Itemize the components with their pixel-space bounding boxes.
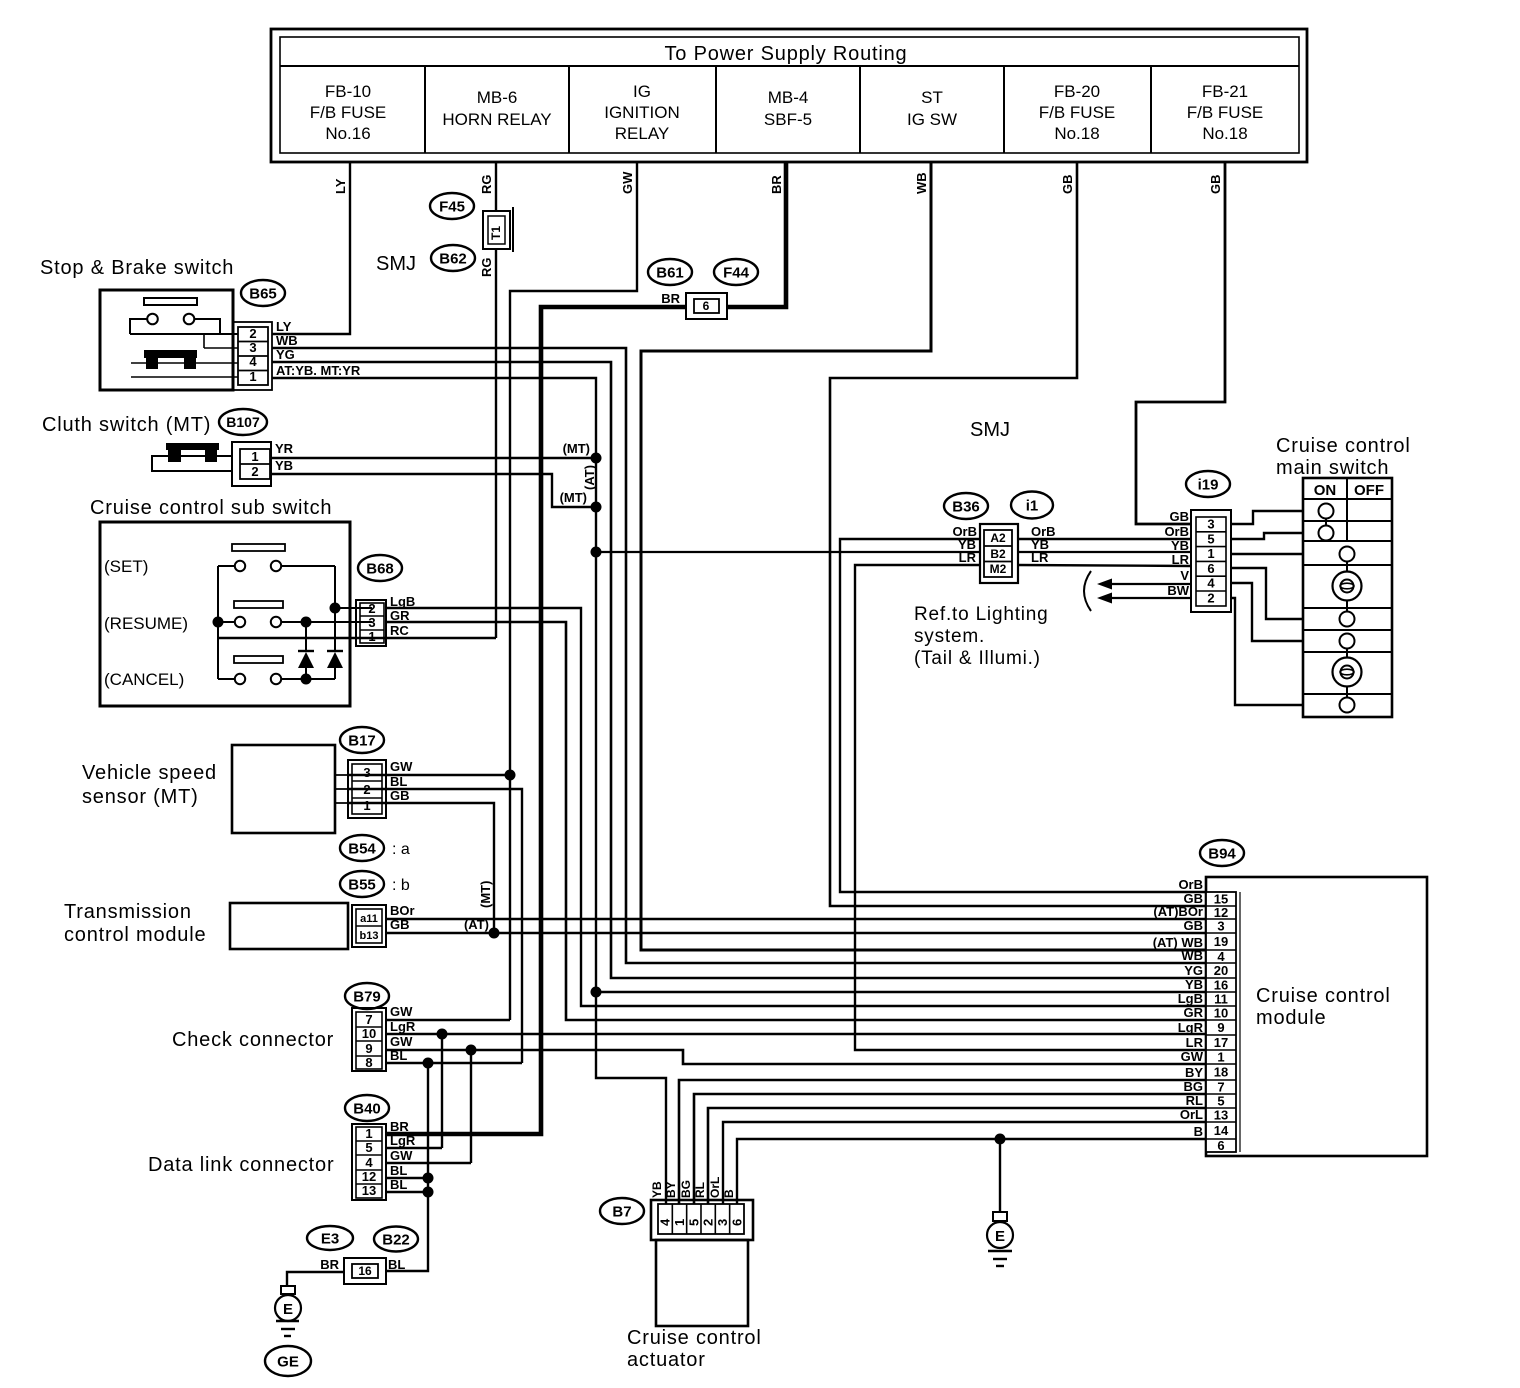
svg-text:B61: B61	[656, 264, 684, 281]
svg-text:1: 1	[251, 449, 258, 464]
svg-text:1: 1	[1207, 546, 1214, 561]
svg-text:B22: B22	[382, 1231, 410, 1248]
svg-text:B40: B40	[353, 1100, 381, 1117]
svg-text:(AT): (AT)	[582, 465, 597, 490]
svg-text:T1: T1	[489, 226, 503, 240]
svg-text:Check connector: Check connector	[172, 1029, 334, 1051]
svg-text:(MT): (MT)	[478, 881, 493, 908]
svg-text:6: 6	[703, 299, 710, 313]
svg-text:2: 2	[1207, 591, 1214, 606]
svg-text:LgB: LgB	[390, 594, 415, 609]
svg-text:5: 5	[686, 1219, 701, 1226]
svg-text:(RESUME): (RESUME)	[104, 614, 188, 633]
svg-text:Cruise control: Cruise control	[1276, 435, 1411, 457]
svg-text:i1: i1	[1026, 497, 1039, 514]
svg-text:6: 6	[729, 1219, 744, 1226]
svg-text:SMJ: SMJ	[376, 253, 416, 275]
svg-text:OrB: OrB	[1164, 524, 1189, 539]
svg-text:: b: : b	[392, 877, 410, 894]
svg-text:F/B FUSE: F/B FUSE	[310, 103, 387, 122]
svg-text:ON: ON	[1314, 482, 1337, 499]
svg-text:BL: BL	[390, 774, 407, 789]
svg-text:RL: RL	[1186, 1093, 1203, 1108]
svg-text:6: 6	[1207, 561, 1214, 576]
svg-text:b13: b13	[360, 930, 379, 942]
svg-text:BL: BL	[390, 1177, 407, 1192]
svg-text:FB-21: FB-21	[1202, 82, 1248, 101]
svg-text:5: 5	[1217, 1094, 1224, 1109]
svg-text:GW: GW	[1181, 1049, 1204, 1064]
svg-text:GW: GW	[390, 1004, 413, 1019]
svg-text:8: 8	[365, 1055, 372, 1070]
svg-text:B94: B94	[1208, 845, 1236, 862]
svg-text:BW: BW	[1167, 583, 1189, 598]
svg-text:GR: GR	[390, 608, 410, 623]
svg-text:Transmission: Transmission	[64, 901, 192, 923]
svg-text:RL: RL	[693, 1182, 707, 1198]
svg-text:BL: BL	[390, 1048, 407, 1063]
svg-text:GW: GW	[390, 1148, 413, 1163]
svg-text:(SET): (SET)	[104, 557, 148, 576]
svg-text:18: 18	[1214, 1065, 1228, 1080]
svg-text:B17: B17	[348, 732, 376, 749]
svg-text:OrB: OrB	[1178, 877, 1203, 892]
svg-text:2: 2	[251, 464, 258, 479]
svg-text:FB-10: FB-10	[325, 82, 371, 101]
svg-text:BR: BR	[769, 175, 784, 194]
svg-text:1: 1	[672, 1219, 687, 1226]
svg-text:ST: ST	[921, 88, 943, 107]
svg-text:BY: BY	[664, 1181, 678, 1198]
svg-text:V: V	[1180, 568, 1189, 583]
svg-text:LR: LR	[1186, 1035, 1204, 1050]
svg-text:WB: WB	[1181, 948, 1203, 963]
svg-text:YB: YB	[650, 1181, 664, 1198]
svg-text:GB: GB	[1060, 175, 1075, 195]
svg-text:3: 3	[363, 765, 370, 780]
svg-text:actuator: actuator	[627, 1349, 706, 1371]
svg-text:9: 9	[1217, 1020, 1224, 1035]
svg-text:RG: RG	[479, 258, 494, 278]
svg-text:B: B	[722, 1189, 736, 1198]
svg-text:17: 17	[1214, 1035, 1228, 1050]
svg-text:Cruise control: Cruise control	[627, 1327, 762, 1349]
svg-text:GW: GW	[390, 1034, 413, 1049]
svg-text:F45: F45	[439, 198, 465, 215]
svg-text:12: 12	[362, 1169, 376, 1184]
svg-text:13: 13	[362, 1183, 376, 1198]
svg-text:B2: B2	[990, 547, 1006, 561]
svg-text:F/B FUSE: F/B FUSE	[1039, 103, 1116, 122]
svg-text:Cluth switch (MT): Cluth switch (MT)	[42, 414, 211, 436]
svg-text:IG SW: IG SW	[907, 110, 957, 129]
svg-text:GB: GB	[1184, 918, 1204, 933]
svg-text:LgB: LgB	[1178, 991, 1203, 1006]
svg-text:IG: IG	[633, 82, 651, 101]
svg-text:SBF-5: SBF-5	[764, 110, 812, 129]
svg-text:4: 4	[1207, 576, 1215, 591]
svg-text:B: B	[1194, 1124, 1203, 1139]
svg-text:B65: B65	[249, 285, 277, 302]
svg-text:1: 1	[1217, 1050, 1224, 1065]
svg-text:FB-20: FB-20	[1054, 82, 1100, 101]
svg-text:7: 7	[365, 1012, 372, 1027]
svg-text:2: 2	[368, 601, 375, 616]
svg-text:MB-4: MB-4	[768, 88, 809, 107]
svg-text:E3: E3	[321, 1230, 339, 1247]
svg-text:BR: BR	[661, 291, 680, 306]
svg-text:14: 14	[1214, 1123, 1229, 1138]
svg-text:(AT)BOr: (AT)BOr	[1153, 904, 1203, 919]
svg-text:system.: system.	[914, 626, 985, 647]
svg-text:10: 10	[1214, 1006, 1228, 1021]
svg-text:F/B FUSE: F/B FUSE	[1187, 103, 1264, 122]
svg-text:BG: BG	[1184, 1079, 1204, 1094]
svg-text:1: 1	[363, 798, 370, 813]
svg-text:B68: B68	[366, 560, 394, 577]
svg-text:a11: a11	[360, 913, 378, 925]
svg-text:LgR: LgR	[1178, 1020, 1204, 1035]
svg-text:B36: B36	[952, 498, 980, 515]
svg-text:Ref.to Lighting: Ref.to Lighting	[914, 604, 1049, 625]
svg-text:Stop & Brake switch: Stop & Brake switch	[40, 257, 234, 279]
svg-text:B79: B79	[353, 988, 381, 1005]
svg-text:5: 5	[365, 1140, 372, 1155]
svg-text:M2: M2	[990, 562, 1007, 576]
svg-text:16: 16	[1214, 978, 1228, 993]
svg-text:BR: BR	[320, 1257, 339, 1272]
svg-text:GE: GE	[277, 1353, 299, 1370]
svg-text:IGNITION: IGNITION	[604, 103, 680, 122]
svg-text:2: 2	[249, 326, 256, 341]
svg-text:WB: WB	[276, 333, 298, 348]
svg-text:GB: GB	[1208, 175, 1223, 195]
svg-text:(Tail & Illumi.): (Tail & Illumi.)	[914, 648, 1041, 669]
svg-text:3: 3	[1207, 517, 1214, 532]
svg-text:E: E	[995, 1228, 1005, 1245]
svg-text:BG: BG	[679, 1180, 693, 1198]
svg-text:(MT): (MT)	[560, 490, 587, 505]
svg-text:(MT): (MT)	[563, 441, 590, 456]
svg-text:(CANCEL): (CANCEL)	[104, 670, 184, 689]
svg-text:BL: BL	[390, 1163, 407, 1178]
svg-text:3: 3	[1217, 919, 1224, 934]
svg-text:B62: B62	[439, 250, 467, 267]
svg-text:GW: GW	[620, 171, 635, 194]
svg-text:: a: : a	[392, 841, 410, 858]
svg-text:4: 4	[1217, 949, 1225, 964]
svg-text:Cruise control sub switch: Cruise control sub switch	[90, 497, 332, 519]
svg-text:YG: YG	[276, 347, 295, 362]
svg-text:GW: GW	[390, 759, 413, 774]
svg-text:9: 9	[365, 1041, 372, 1056]
svg-text:i19: i19	[1198, 476, 1219, 493]
svg-text:GB: GB	[390, 788, 410, 803]
svg-text:2: 2	[701, 1219, 716, 1226]
svg-text:E: E	[283, 1301, 293, 1318]
svg-text:5: 5	[1207, 531, 1214, 546]
svg-text:7: 7	[1217, 1080, 1224, 1095]
svg-text:4: 4	[365, 1155, 373, 1170]
svg-text:GB: GB	[390, 917, 410, 932]
svg-text:OrL: OrL	[708, 1177, 722, 1198]
svg-text:3: 3	[249, 340, 256, 355]
svg-text:RG: RG	[479, 175, 494, 195]
svg-text:LY: LY	[276, 319, 292, 334]
svg-text:3: 3	[715, 1219, 730, 1226]
svg-text:Cruise control: Cruise control	[1256, 985, 1391, 1007]
svg-text:BY: BY	[1185, 1065, 1203, 1080]
svg-text:BL: BL	[388, 1257, 405, 1272]
svg-text:YR: YR	[275, 441, 294, 456]
svg-text:MB-6: MB-6	[477, 88, 518, 107]
svg-text:1: 1	[365, 1126, 372, 1141]
svg-text:YB: YB	[275, 458, 293, 473]
svg-text:control module: control module	[64, 924, 206, 946]
svg-text:B54: B54	[348, 840, 376, 857]
svg-text:main switch: main switch	[1276, 457, 1389, 479]
svg-text:module: module	[1256, 1007, 1326, 1029]
svg-text:LY: LY	[333, 178, 348, 194]
svg-text:AT:YB. MT:YR: AT:YB. MT:YR	[276, 363, 361, 378]
svg-text:Vehicle speed: Vehicle speed	[82, 762, 217, 784]
svg-text:OrL: OrL	[1180, 1107, 1203, 1122]
svg-text:RC: RC	[390, 623, 409, 638]
svg-text:F44: F44	[723, 264, 750, 281]
svg-text:4: 4	[249, 354, 257, 369]
svg-text:19: 19	[1214, 934, 1228, 949]
svg-text:3: 3	[368, 615, 375, 630]
svg-text:OFF: OFF	[1354, 482, 1384, 499]
svg-text:No.18: No.18	[1054, 124, 1099, 143]
svg-text:10: 10	[362, 1026, 376, 1041]
svg-text:LR: LR	[1031, 550, 1049, 565]
svg-text:20: 20	[1214, 963, 1228, 978]
svg-text:No.18: No.18	[1202, 124, 1247, 143]
svg-text:BR: BR	[390, 1119, 409, 1134]
svg-text:2: 2	[363, 782, 370, 797]
svg-text:No.16: No.16	[325, 124, 370, 143]
svg-text:11: 11	[1214, 992, 1228, 1007]
svg-text:YG: YG	[1184, 963, 1203, 978]
svg-text:B7: B7	[612, 1203, 631, 1220]
svg-text:To Power Supply Routing: To Power Supply Routing	[665, 43, 908, 65]
svg-text:1: 1	[368, 629, 375, 644]
svg-text:4: 4	[658, 1218, 673, 1226]
svg-text:B107: B107	[226, 414, 260, 430]
svg-text:WB: WB	[914, 172, 929, 194]
svg-text:YB: YB	[1185, 977, 1203, 992]
svg-text:LgR: LgR	[390, 1019, 416, 1034]
svg-text:GB: GB	[1170, 509, 1190, 524]
svg-text:Data link connector: Data link connector	[148, 1154, 334, 1176]
svg-text:13: 13	[1214, 1108, 1228, 1123]
svg-text:16: 16	[358, 1264, 372, 1278]
svg-text:1: 1	[249, 369, 256, 384]
svg-text:YB: YB	[1171, 538, 1189, 553]
svg-text:A2: A2	[990, 531, 1006, 545]
svg-text:SMJ: SMJ	[970, 419, 1010, 441]
svg-text:LgR: LgR	[390, 1133, 416, 1148]
svg-text:BOr: BOr	[390, 903, 415, 918]
svg-text:LR: LR	[959, 550, 977, 565]
svg-text:HORN RELAY: HORN RELAY	[442, 110, 551, 129]
svg-text:GR: GR	[1184, 1005, 1204, 1020]
svg-text:RELAY: RELAY	[615, 124, 670, 143]
svg-text:LR: LR	[1172, 552, 1190, 567]
svg-text:sensor (MT): sensor (MT)	[82, 786, 199, 808]
svg-text:6: 6	[1217, 1138, 1224, 1153]
svg-text:B55: B55	[348, 876, 376, 893]
svg-text:(AT): (AT)	[464, 917, 489, 932]
